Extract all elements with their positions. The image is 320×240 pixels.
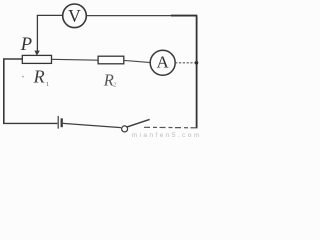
svg-text:2: 2 bbox=[113, 83, 116, 89]
svg-text:P: P bbox=[20, 35, 32, 55]
svg-text:1: 1 bbox=[46, 81, 49, 88]
svg-text:A: A bbox=[156, 53, 169, 72]
svg-text:V: V bbox=[68, 6, 81, 26]
svg-text:R: R bbox=[33, 67, 45, 87]
svg-text:mianfen5.com: mianfen5.com bbox=[132, 132, 202, 138]
